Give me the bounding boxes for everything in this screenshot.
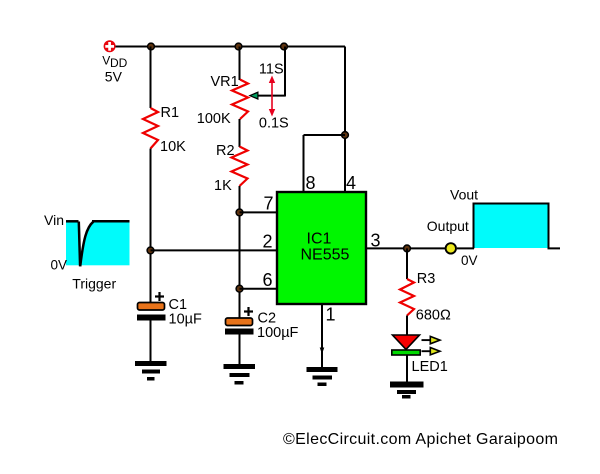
wire pin 7 <box>240 211 278 213</box>
svg-text:NE555: NE555 <box>301 247 350 264</box>
VDD terminal <box>104 40 116 52</box>
label R2 <box>216 143 235 159</box>
svg-text:2: 2 <box>263 232 273 252</box>
node junction top rail at wiper branch <box>281 43 288 50</box>
label 0V output <box>461 253 478 268</box>
copyright <box>283 431 558 448</box>
svg-text:R2: R2 <box>216 143 235 159</box>
label VR1 <box>211 74 239 90</box>
node junction pin7 <box>236 209 243 216</box>
svg-text:IC1: IC1 <box>307 231 332 248</box>
node junction top rail at R1 <box>148 43 155 50</box>
capacitor C2 <box>225 307 254 335</box>
resistor R3 <box>400 279 414 316</box>
wire LED to ground <box>406 355 408 382</box>
op-amp U1 / IC1 NE555 body <box>277 192 366 304</box>
resistor R2 <box>232 147 248 187</box>
label VDD <box>102 54 127 71</box>
svg-text:10K: 10K <box>160 139 186 155</box>
potentiometer VR1 <box>232 80 248 120</box>
label C2 <box>258 311 277 327</box>
node junction top rail at VR1 <box>235 43 242 50</box>
label LED1 <box>412 359 448 375</box>
node junction pin6 <box>236 285 243 292</box>
svg-text:0V: 0V <box>461 253 478 268</box>
label 680ohm <box>416 308 451 324</box>
node junction pin2 / R1 / C1 <box>147 247 154 254</box>
svg-text:R3: R3 <box>417 271 436 287</box>
wire R1 top <box>150 47 152 109</box>
wire pin 2 <box>151 249 278 251</box>
svg-text:3: 3 <box>371 231 381 251</box>
label 100K <box>197 111 231 127</box>
svg-text:©ElecCircuit.com Apichet Garai: ©ElecCircuit.com Apichet Garaipoom <box>283 431 558 448</box>
label C1 <box>169 297 188 313</box>
pin label 7 <box>264 194 274 214</box>
svg-text:8: 8 <box>306 173 316 193</box>
label Trigger <box>72 276 116 292</box>
svg-text:1K: 1K <box>214 178 232 194</box>
wire R3 top <box>406 248 408 279</box>
label 0V input <box>51 258 68 273</box>
ground C1 <box>135 361 167 381</box>
label 5V <box>105 69 123 85</box>
label 10uF <box>169 312 202 328</box>
svg-text:0.1S: 0.1S <box>259 115 289 131</box>
ground C2 <box>224 364 256 385</box>
svg-text:R1: R1 <box>161 105 180 121</box>
pin label 3 <box>371 231 381 251</box>
pin label 2 <box>263 232 273 252</box>
pin label 6 <box>263 270 273 290</box>
label 100uF <box>257 325 299 341</box>
wire wiper to top rail <box>284 47 286 97</box>
pin label 8 <box>306 173 316 193</box>
wire VR1 to R2 <box>239 119 241 147</box>
svg-text:Vout: Vout <box>450 186 478 202</box>
wire pin 6 <box>240 288 278 290</box>
svg-text:VR1: VR1 <box>211 74 239 90</box>
svg-text:100K: 100K <box>197 111 231 127</box>
node junction output / R3 <box>404 245 411 252</box>
label R3 <box>417 271 436 287</box>
Vin waveform <box>66 221 130 267</box>
wire pin 8 <box>304 135 346 192</box>
label Vin <box>44 212 64 228</box>
label Vout <box>450 186 478 202</box>
svg-text:0V: 0V <box>51 258 68 273</box>
capacitor C1 <box>137 292 166 321</box>
LED LED1 <box>392 335 420 355</box>
wire R1 bottom to C1 <box>150 149 152 304</box>
pin label 1 <box>326 305 336 325</box>
pin label 4 <box>346 173 356 193</box>
svg-text:11S: 11S <box>259 62 284 78</box>
svg-text:7: 7 <box>264 194 274 214</box>
ground pin 1 <box>307 367 338 386</box>
svg-text:10µF: 10µF <box>169 312 202 328</box>
label 1K <box>214 178 232 194</box>
wire pin 3 output <box>366 247 445 249</box>
wire R3 to LED <box>406 316 408 337</box>
timing range arrow <box>269 76 275 117</box>
resistor R1 <box>143 108 158 149</box>
label 11S <box>259 62 284 78</box>
svg-text:680Ω: 680Ω <box>416 308 451 324</box>
svg-text:100µF: 100µF <box>257 325 299 341</box>
wire top VDD rail <box>114 46 345 48</box>
label R1 <box>161 105 180 121</box>
output terminal <box>446 243 456 253</box>
VR1 wiper arrow <box>248 91 285 100</box>
wire VR1 top <box>239 47 241 81</box>
wire R2 bottom to C2 <box>239 186 241 318</box>
LED light arrows <box>422 336 441 355</box>
wire C2 to ground <box>239 335 241 366</box>
wire VDD rail corner down to pin 4 <box>344 47 346 193</box>
wire C1 to ground <box>150 321 152 363</box>
svg-text:4: 4 <box>346 173 356 193</box>
svg-text:Trigger: Trigger <box>72 276 116 292</box>
svg-text:1: 1 <box>326 305 336 325</box>
label 0.1S <box>259 115 289 131</box>
wire output terminal to Vout baseline <box>457 247 474 249</box>
svg-text:5V: 5V <box>105 69 123 85</box>
wire pin 1 to ground <box>320 304 325 368</box>
label Output <box>427 218 469 234</box>
svg-text:Output: Output <box>427 218 469 234</box>
svg-text:LED1: LED1 <box>412 359 448 375</box>
ground LED <box>390 382 424 399</box>
label 10K <box>160 139 186 155</box>
Vout waveform <box>474 204 561 249</box>
node junction pin8 branch <box>342 132 349 139</box>
svg-text:Vin: Vin <box>44 212 64 228</box>
svg-text:6: 6 <box>263 270 273 290</box>
